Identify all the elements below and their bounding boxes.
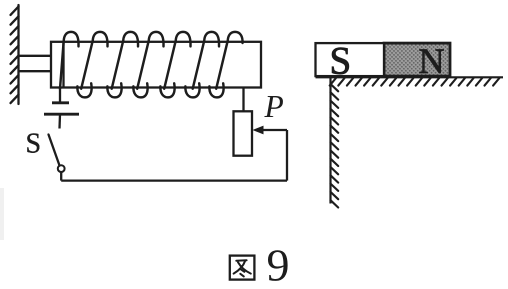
- table surface hatching: [330, 78, 500, 86]
- svg-text:P: P: [264, 89, 284, 124]
- bottom wire: [61, 179, 287, 181]
- right riser wire: [286, 130, 288, 181]
- magnet S half (white): [316, 43, 385, 76]
- core end-cap divider: [62, 42, 64, 88]
- rheostat P: [234, 111, 253, 155]
- wall hatching: [11, 7, 19, 104]
- wiper wire with arrow: [258, 129, 287, 131]
- scan streak artifact: [0, 188, 4, 240]
- table left edge line: [329, 77, 331, 203]
- wire: coil to battery: [59, 88, 61, 103]
- wire: battery to switch: [58, 114, 61, 128]
- wire: rheostat to coil: [242, 88, 244, 112]
- battery: short plate (top): [52, 101, 69, 104]
- magnet N half (gray): [384, 43, 450, 76]
- rod from wall to core: [19, 56, 52, 71]
- wire: switch down to bottom wire: [60, 172, 62, 181]
- svg-text:S: S: [330, 40, 352, 83]
- caption 图 (drawn glyph): [230, 256, 255, 280]
- svg-text:N: N: [419, 41, 445, 81]
- switch hinge circle: [58, 165, 65, 172]
- svg-text:9: 9: [267, 240, 290, 285]
- coil winding (7 turns): [60, 32, 243, 98]
- table edge hatching: [331, 84, 339, 208]
- wall (left fixed support): [17, 5, 19, 104]
- table surface line: [316, 76, 504, 78]
- switch S blade (open): [49, 135, 60, 166]
- solenoid core rectangle: [51, 42, 261, 88]
- svg-text:S: S: [26, 129, 42, 160]
- battery: long plate (bottom): [44, 113, 79, 116]
